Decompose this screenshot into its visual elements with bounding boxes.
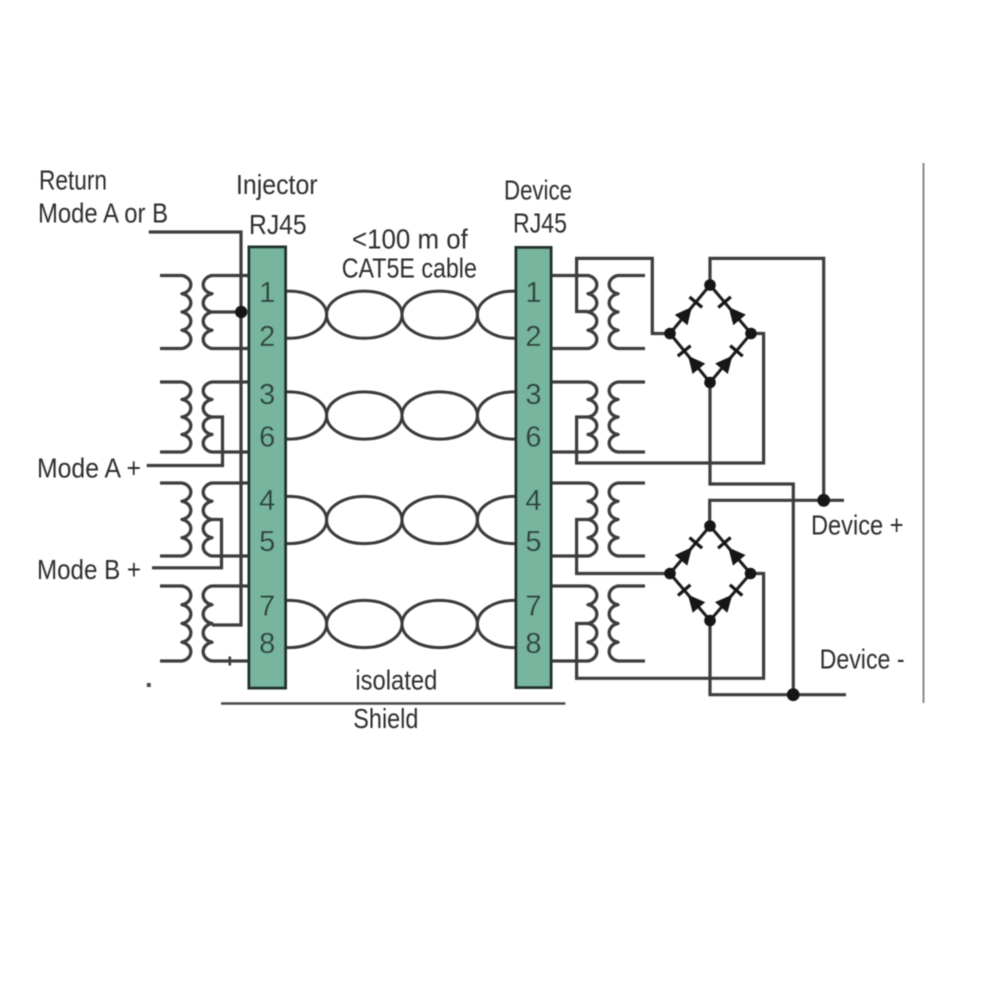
svg-text:2: 2 — [525, 321, 541, 353]
transformer T4 (injector side) secondary winding — [203, 586, 250, 661]
diode bridge B1 outline — [670, 285, 751, 383]
svg-text:3: 3 — [259, 379, 275, 411]
svg-text:RJ45: RJ45 — [513, 208, 567, 239]
svg-text:RJ45: RJ45 — [249, 209, 307, 240]
wire: bridge B1 top corner up and right, down to Device + node — [710, 258, 824, 500]
junction dot B2 top corner — [704, 520, 716, 532]
transformer T6 (device side) secondary winding — [609, 382, 645, 452]
wire: T2 center tap down to Mode A + — [147, 417, 223, 466]
junction dot B2 left corner — [664, 568, 676, 580]
svg-text:Device +: Device + — [811, 510, 904, 541]
junction dot B1 top corner — [704, 279, 716, 291]
junction dot B1 left corner — [664, 328, 676, 340]
tick mark on T4 bottom wire — [229, 657, 232, 666]
wire: device T4 center tap down and around to bridge B2 right corner — [577, 574, 764, 679]
wire: bridge B1 bottom corner down to Device - node — [710, 383, 793, 695]
svg-text:5: 5 — [525, 526, 541, 558]
diode B2 D2 right-to-top — [718, 538, 745, 566]
svg-text:Injector: Injector — [236, 169, 318, 200]
wire: device T2 center tap down and around to bridge B1 right corner — [577, 334, 764, 464]
transformer T2 (injector side) primary winding — [160, 382, 191, 452]
diode bridge B2 outline — [670, 526, 751, 621]
svg-text:7: 7 — [525, 591, 541, 623]
svg-text:Shield: Shield — [353, 703, 418, 734]
diode B1 D2 right-to-top — [718, 297, 746, 325]
junction dot B1 right corner — [745, 328, 757, 340]
wire: bridge B2 bottom corner down to Device - rail (stub to right) — [710, 621, 846, 695]
svg-text:Mode A or B: Mode A or B — [38, 198, 168, 229]
transformer T5 (device side) line winding — [550, 276, 597, 349]
twisted pair 1-2 (CAT5E cable) — [251, 291, 549, 338]
svg-text:CAT5E cable: CAT5E cable — [342, 253, 477, 284]
transformer T8 (device side) line winding — [550, 586, 597, 661]
junction dot: Device - — [787, 688, 800, 701]
svg-text:7: 7 — [259, 591, 275, 623]
svg-text:Device: Device — [504, 175, 572, 206]
wire: shield line — [221, 702, 565, 704]
transformer T7 (device side) line winding — [550, 483, 597, 556]
diode B2 D1 left-to-top — [675, 538, 702, 566]
svg-text:1: 1 — [525, 277, 541, 309]
transformer T1 (injector side) secondary winding — [203, 276, 250, 349]
transformer T3 (injector side) secondary winding — [203, 483, 250, 556]
wire: T1 center tap to Return bus — [212, 310, 241, 313]
svg-text:8: 8 — [259, 628, 275, 660]
svg-text:<100 m of: <100 m of — [352, 223, 468, 254]
twisted pair 3-6 (CAT5E cable) — [251, 392, 549, 439]
Injector RJ45 connector body — [249, 247, 286, 688]
svg-text:Return: Return — [39, 165, 107, 196]
svg-text:Mode B +: Mode B + — [37, 554, 141, 585]
transformer T6 (device side) line winding — [550, 382, 597, 452]
transformer T4 (injector side) primary winding — [160, 586, 191, 661]
junction dot B2 right corner — [745, 568, 757, 580]
svg-text:2: 2 — [259, 321, 275, 353]
svg-text:6: 6 — [259, 422, 275, 454]
wire: device T3 center tap down to bridge B2 left corner — [577, 520, 670, 574]
transformer T8 (device side) secondary winding — [609, 586, 645, 661]
svg-text:Device -: Device - — [820, 644, 905, 675]
svg-text:isolated: isolated — [355, 665, 437, 696]
diode B1 D3 bottom-to-left — [678, 346, 705, 374]
junction dot B1 bottom corner — [704, 377, 716, 389]
transformer T3 (injector side) primary winding — [160, 483, 191, 556]
diode B2 D4 bottom-to-right — [715, 585, 742, 613]
diode B2 D3 bottom-to-left — [678, 585, 705, 613]
wire: T3 center tap down to Mode B + — [152, 520, 222, 568]
svg-text:4: 4 — [259, 485, 275, 517]
stray dot — [147, 683, 151, 687]
diode B1 D4 bottom-to-right — [715, 346, 743, 374]
svg-text:1: 1 — [259, 277, 275, 309]
vertical border line (right edge of original figure) — [923, 163, 925, 703]
svg-text:8: 8 — [525, 628, 541, 660]
wire: device T1 center tap up and over to bridge B1 left corner — [577, 258, 670, 333]
junction dot: T1 center tap on Return bus — [235, 306, 247, 318]
twisted pair 7-8 (CAT5E cable) — [251, 600, 549, 647]
svg-text:4: 4 — [525, 485, 541, 517]
svg-text:Mode A +: Mode A + — [37, 453, 141, 484]
Device RJ45 connector body — [516, 248, 551, 688]
transformer T7 (device side) secondary winding — [609, 483, 645, 556]
twisted pair 4-5 (CAT5E cable) — [251, 496, 549, 543]
wire: Return bus (from "Mode A or B" label, right then down to T4 center tap) — [149, 232, 241, 625]
transformer T2 (injector side) secondary winding — [203, 382, 250, 452]
junction dot B2 bottom corner — [704, 615, 716, 627]
wire: Device + rail (to bridge B2 top corner, stub to right) — [710, 500, 844, 526]
svg-text:5: 5 — [259, 526, 275, 558]
transformer T5 (device side) secondary winding — [609, 276, 645, 349]
diode B1 D1 left-to-top — [675, 297, 702, 325]
transformer T1 (injector side) primary winding — [160, 276, 191, 349]
junction dot: Device + — [817, 494, 830, 507]
svg-text:3: 3 — [525, 379, 541, 411]
svg-text:6: 6 — [525, 422, 541, 454]
